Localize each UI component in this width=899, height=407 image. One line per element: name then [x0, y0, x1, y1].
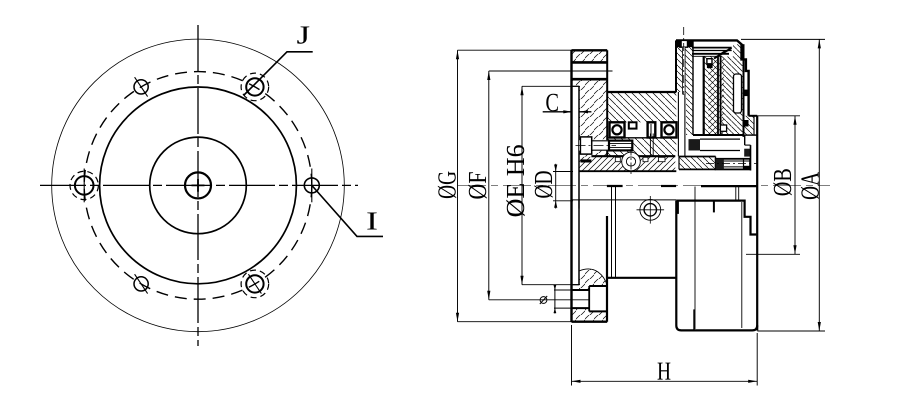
boss top edge [749, 115, 758, 117]
housing inner bottom [693, 134, 744, 136]
label C [546, 94, 558, 111]
sleeve hatch band [580, 157, 676, 171]
line under bearings [607, 137, 676, 139]
white spring notch [734, 74, 742, 113]
snap ring tabs [744, 90, 748, 97]
outer circle (housing silhouette) [52, 39, 345, 332]
center cross [192, 179, 205, 192]
stator hatch [607, 92, 676, 122]
flange hatch between hole and recess [572, 80, 607, 86]
spacer block small [629, 122, 637, 128]
flange lower bolt hole [572, 289, 590, 291]
housing wall hatch [676, 40, 693, 135]
dim A line [818, 39, 820, 331]
boss right face [756, 116, 758, 331]
friction plate [717, 57, 719, 135]
small seal squares [707, 59, 712, 64]
seal square left [689, 139, 701, 150]
nut block [609, 141, 632, 151]
horizontal centerline [40, 184, 358, 186]
label D [534, 171, 552, 197]
flange broken-out section hatch around lower bolt hole [579, 269, 607, 290]
white channel borders [692, 40, 694, 135]
inner circle [150, 137, 247, 234]
screw slot top [680, 40, 688, 47]
bearing right [662, 122, 677, 137]
sleeve end stub [578, 200, 580, 209]
screw axis [576, 145, 617, 147]
bore silhouette [572, 199, 676, 201]
barrel silhouette [611, 187, 613, 278]
housing left face [675, 40, 677, 92]
bearing left [610, 122, 625, 137]
hole I (0deg) [304, 178, 319, 193]
flange top bolt hole [572, 61, 608, 64]
key black bar [580, 159, 591, 162]
pin assembly [716, 159, 751, 170]
hole J (60deg) with counterbore ring [246, 78, 263, 95]
hole 240deg with slash [134, 277, 148, 291]
shaft end thick band [607, 185, 623, 187]
center hole circle [185, 172, 211, 198]
flange recess face line [578, 86, 580, 284]
dim D line [555, 164, 557, 209]
flange recess circle [100, 87, 297, 284]
seal square right [744, 149, 750, 157]
flange outline [570, 50, 572, 321]
rotor seam lines [694, 187, 696, 330]
screw hole channel [683, 47, 686, 94]
housing outline top [676, 40, 749, 115]
stator top edge [607, 91, 676, 93]
leader of label J [244, 52, 313, 96]
screw head [580, 137, 591, 154]
label F [468, 172, 486, 198]
bearing cover laminations [692, 47, 732, 49]
vertical centerline [197, 25, 199, 346]
spline gaps [615, 157, 620, 161]
dim H line [572, 380, 758, 382]
hatched block right edge [743, 44, 745, 137]
dim F line [488, 71, 490, 300]
dim G line [457, 50, 459, 322]
hole 180deg with counterbore ring [75, 176, 94, 195]
lower housing hatch block [679, 157, 716, 170]
bolt circle (dashed) [84, 72, 312, 300]
label H [658, 363, 671, 380]
main centerline [458, 184, 830, 186]
flange hatch top band [572, 50, 607, 62]
label A [801, 172, 819, 199]
LEFT VIEW [40, 25, 383, 346]
label I [367, 212, 376, 229]
detent ball circle [622, 152, 641, 171]
pin axis centerline [706, 163, 757, 165]
center separator block [648, 122, 656, 137]
hole 300deg with counterbore ring and slash [246, 275, 263, 292]
label G [438, 172, 456, 199]
radial hole hidden lines [649, 134, 651, 157]
hole 120deg with slash [134, 80, 148, 94]
screw shaft [592, 140, 609, 142]
rotor groove stubs [677, 201, 679, 214]
dim E line [521, 86, 523, 284]
stator/housing seam [677, 92, 679, 156]
label E H6 [506, 145, 524, 216]
DIMENSIONS [438, 39, 825, 385]
screw channel white [579, 140, 633, 150]
RIGHT VIEW [458, 27, 830, 331]
leader of label I [312, 185, 383, 236]
dim B line [794, 116, 796, 255]
flange hatch main upper [579, 86, 607, 140]
screw axis centerline [683, 27, 685, 95]
label B [773, 169, 791, 195]
label J [297, 26, 309, 43]
housing inner hatch block [704, 57, 718, 136]
radial screw hole [640, 199, 661, 220]
dim C [543, 111, 573, 113]
rotor outline [676, 201, 756, 235]
small hole dia symbol on lower bolt hole axis [540, 297, 547, 304]
